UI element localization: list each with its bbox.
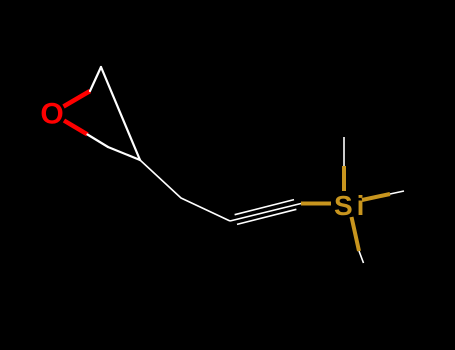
svg-text:Si: Si — [334, 190, 368, 221]
svg-text:O: O — [40, 98, 63, 131]
